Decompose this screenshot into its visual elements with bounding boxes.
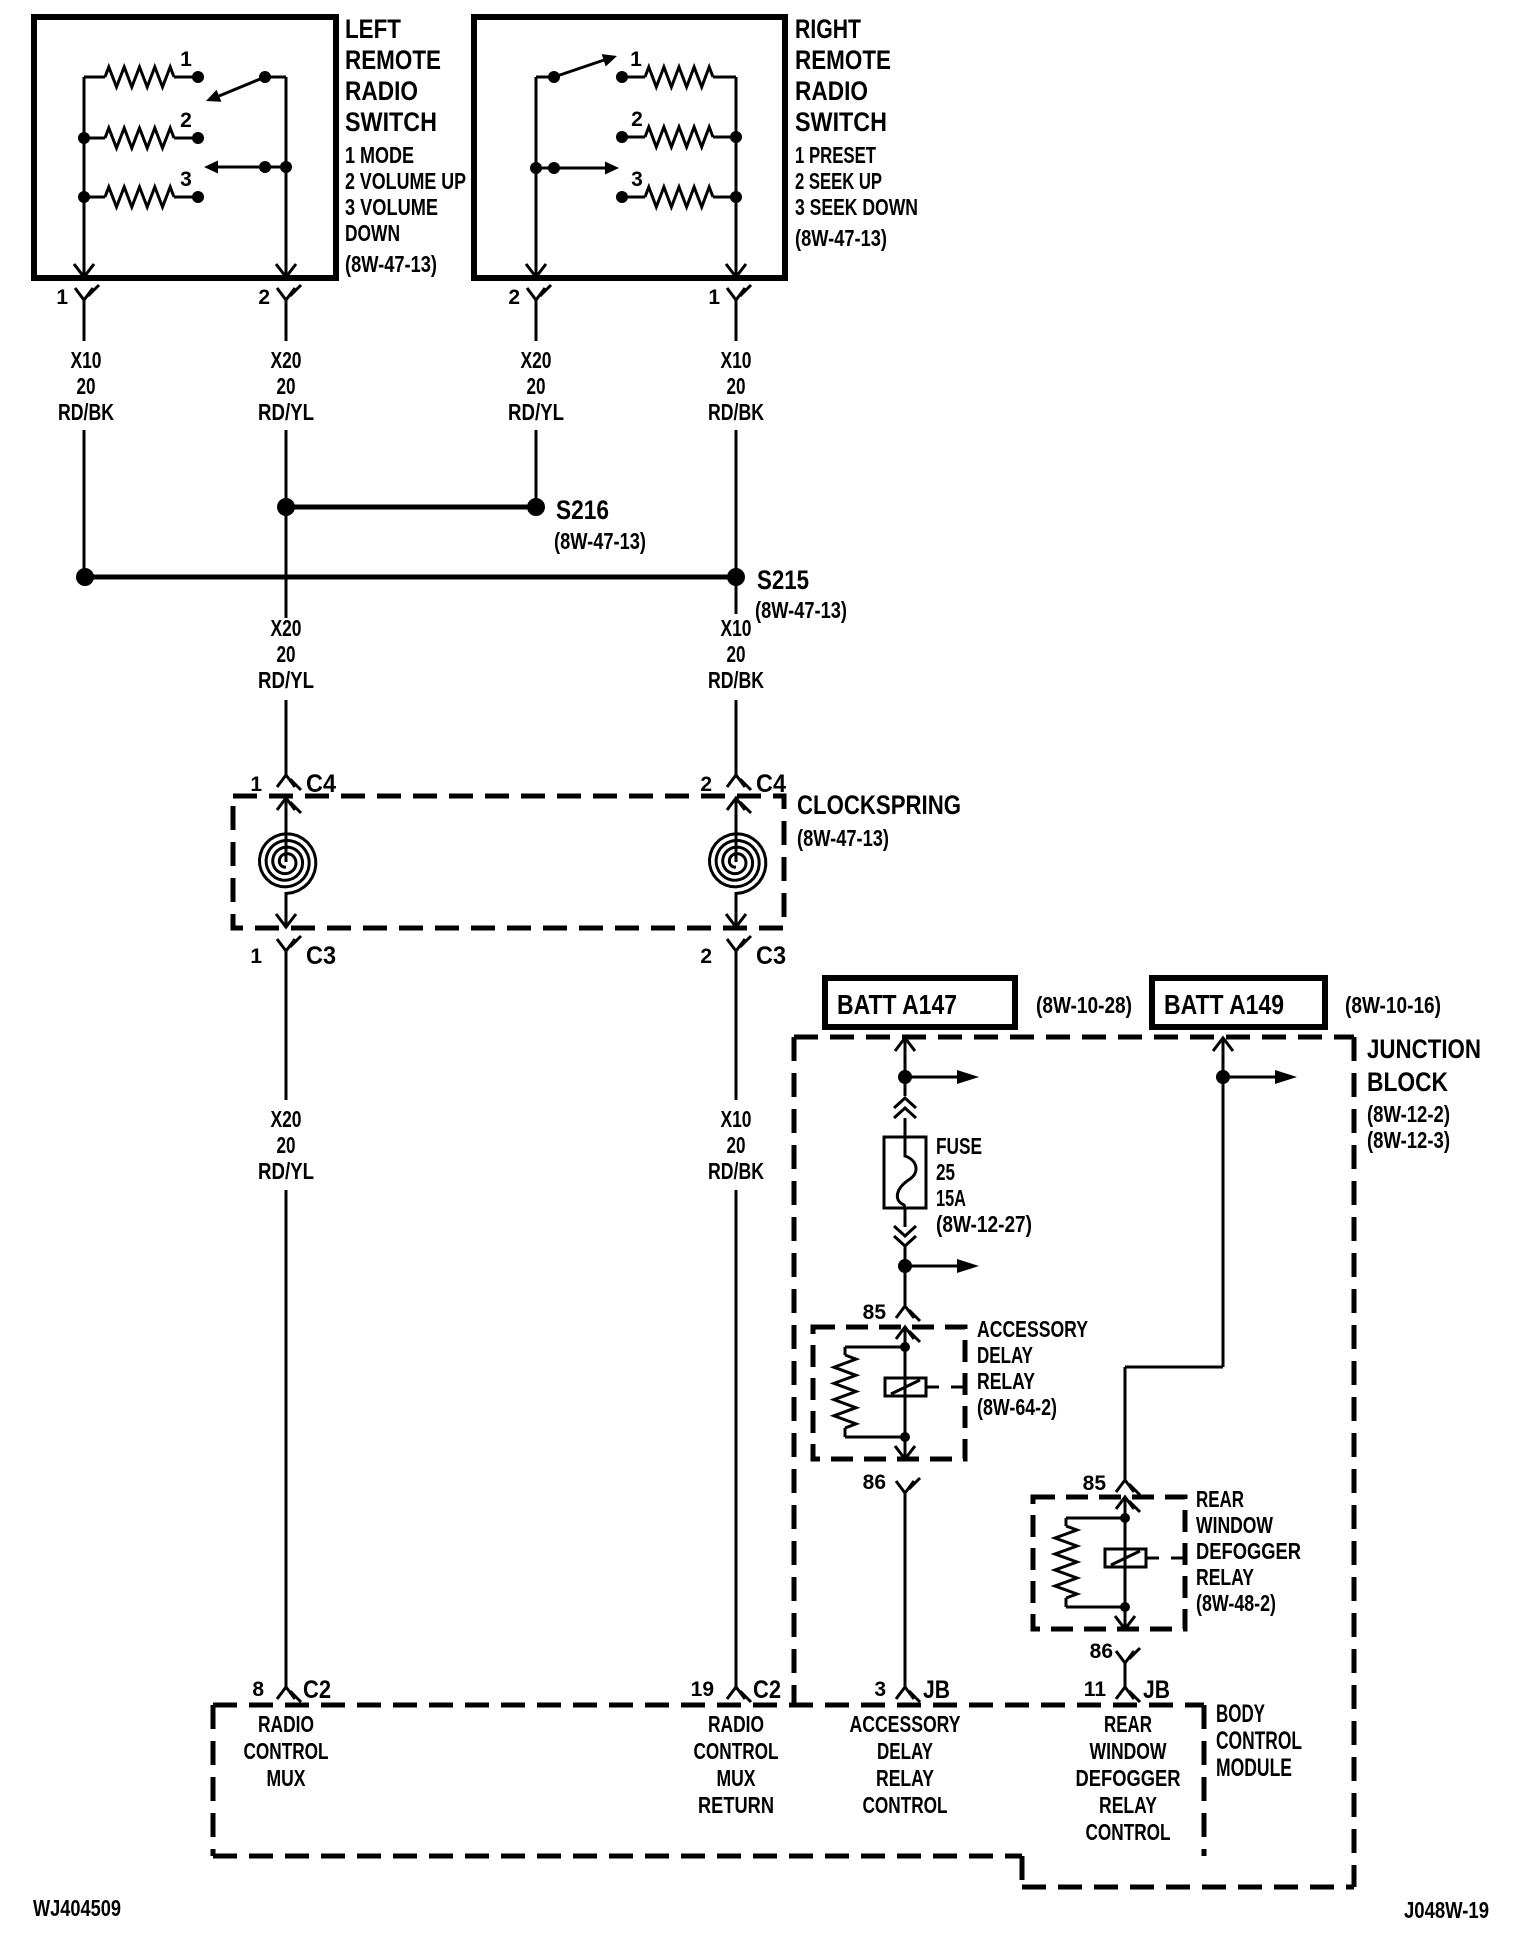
wire from BATT A149 xyxy=(1213,1038,1233,1367)
svg-text:2: 2 xyxy=(180,109,192,132)
accessory delay relay internals xyxy=(834,1327,920,1459)
svg-text:REMOTE: REMOTE xyxy=(795,45,891,75)
svg-text:X10: X10 xyxy=(71,347,102,373)
clockspring box xyxy=(233,796,784,928)
node REAR WINDOW DEFOGGER RELAY CONTROL xyxy=(1076,1711,1181,1845)
svg-text:RD/YL: RD/YL xyxy=(258,667,314,693)
svg-text:CLOCKSPRING: CLOCKSPRING xyxy=(797,790,961,820)
connector JB pin 11 xyxy=(1084,1676,1170,1704)
svg-text:JUNCTION: JUNCTION xyxy=(1367,1034,1481,1064)
svg-text:SWITCH: SWITCH xyxy=(345,107,437,137)
left switch wiper arm xyxy=(206,71,286,102)
wire from BATT A147 xyxy=(895,1038,915,1096)
svg-text:3: 3 xyxy=(180,168,192,191)
svg-text:1: 1 xyxy=(630,48,642,71)
svg-text:2 VOLUME UP: 2 VOLUME UP xyxy=(345,168,466,194)
svg-text:X20: X20 xyxy=(271,615,302,641)
svg-text:(8W-12-2): (8W-12-2) xyxy=(1367,1101,1450,1127)
svg-text:C3: C3 xyxy=(756,942,786,970)
right switch wiper arm xyxy=(548,54,617,83)
accessory delay relay box xyxy=(813,1327,965,1459)
right switch wire right vertical xyxy=(726,77,746,277)
svg-text:RELAY: RELAY xyxy=(1099,1792,1157,1818)
svg-text:CONTROL: CONTROL xyxy=(694,1738,779,1764)
inline connector double chevron xyxy=(894,1098,916,1137)
right remote radio switch box xyxy=(474,17,785,278)
drawing number WJ404509 xyxy=(33,1895,121,1921)
rear window defogger relay coil xyxy=(1105,1549,1186,1567)
wire segment xyxy=(535,430,538,507)
drawing number J048W-19 xyxy=(1404,1897,1489,1923)
splice S215 xyxy=(76,565,847,623)
wire X10 20 RD/BK label right xyxy=(708,347,764,425)
svg-text:(8W-10-28): (8W-10-28) xyxy=(1036,992,1132,1018)
wire segment xyxy=(285,700,288,775)
connector C2 pin 8 xyxy=(252,1676,331,1704)
svg-text:2: 2 xyxy=(258,286,270,309)
svg-text:REAR: REAR xyxy=(1196,1486,1244,1512)
svg-text:C2: C2 xyxy=(753,1676,781,1704)
svg-text:(8W-48-2): (8W-48-2) xyxy=(1196,1590,1276,1616)
svg-text:RD/YL: RD/YL xyxy=(258,1158,314,1184)
accessory delay relay label xyxy=(977,1316,1088,1420)
left switch wire right vertical xyxy=(276,77,296,277)
svg-text:C3: C3 xyxy=(306,942,336,970)
resistor right switch 2 SEEK UP xyxy=(616,108,742,147)
svg-text:WINDOW: WINDOW xyxy=(1090,1738,1167,1764)
svg-text:15A: 15A xyxy=(936,1185,966,1211)
svg-text:(8W-47-13): (8W-47-13) xyxy=(797,825,889,851)
svg-text:MUX: MUX xyxy=(717,1765,756,1791)
junction block box xyxy=(794,1037,1354,1887)
svg-text:DEFOGGER: DEFOGGER xyxy=(1196,1538,1301,1564)
svg-text:MUX: MUX xyxy=(267,1765,306,1791)
wire segment xyxy=(735,1190,738,1687)
fuse 25 15A xyxy=(884,1133,1032,1237)
relay pin 85 connector xyxy=(1083,1472,1140,1495)
svg-text:1: 1 xyxy=(180,48,192,71)
node branch arrow xyxy=(1216,1070,1297,1084)
clockspring coil right xyxy=(710,798,766,927)
svg-text:86: 86 xyxy=(1090,1640,1113,1663)
node ACCESSORY DELAY RELAY CONTROL xyxy=(850,1711,961,1818)
svg-text:(8W-47-13): (8W-47-13) xyxy=(795,225,887,251)
svg-text:1: 1 xyxy=(56,286,68,309)
svg-text:3 VOLUME: 3 VOLUME xyxy=(345,194,438,220)
relay pin 86 connector xyxy=(863,1471,920,1494)
svg-text:20: 20 xyxy=(527,373,546,399)
left switch wire left vertical xyxy=(74,77,94,277)
wire segment xyxy=(735,586,738,614)
connector C2 pin 19 xyxy=(691,1676,781,1704)
svg-text:RELAY: RELAY xyxy=(876,1765,934,1791)
svg-text:RD/YL: RD/YL xyxy=(258,399,314,425)
svg-text:RETURN: RETURN xyxy=(698,1792,774,1818)
svg-text:C2: C2 xyxy=(303,1676,331,1704)
wire segment xyxy=(285,951,288,1100)
svg-text:RD/BK: RD/BK xyxy=(58,399,114,425)
resistor left switch 3 VOLUME DOWN xyxy=(78,168,204,207)
svg-text:20: 20 xyxy=(277,1132,296,1158)
svg-text:BODY: BODY xyxy=(1216,1700,1265,1728)
wire segment xyxy=(1124,1663,1127,1687)
splice S216 xyxy=(277,495,646,554)
svg-text:BATT A149: BATT A149 xyxy=(1164,989,1284,1020)
svg-text:2: 2 xyxy=(700,945,712,968)
svg-text:DELAY: DELAY xyxy=(877,1738,933,1764)
wire X20 20 RD/YL label mid xyxy=(258,615,314,693)
battery feed box BATT A147 xyxy=(825,978,1132,1027)
svg-text:1 MODE: 1 MODE xyxy=(345,142,414,168)
clockspring coil left xyxy=(260,798,316,927)
svg-text:(8W-47-13): (8W-47-13) xyxy=(345,251,437,277)
wire X20 20 RD/YL label right xyxy=(508,347,564,425)
right switch pin 2 connector xyxy=(508,285,551,341)
svg-text:X10: X10 xyxy=(721,347,752,373)
svg-text:RD/BK: RD/BK xyxy=(708,1158,764,1184)
svg-text:3: 3 xyxy=(631,168,643,191)
right switch select arrow xyxy=(530,162,619,175)
svg-text:REAR: REAR xyxy=(1104,1711,1152,1737)
resistor left switch 1 MODE xyxy=(84,48,204,87)
wire X20 20 RD/YL label lower xyxy=(258,1106,314,1184)
svg-text:(8W-12-27): (8W-12-27) xyxy=(936,1211,1032,1237)
svg-text:J048W-19: J048W-19 xyxy=(1404,1897,1489,1923)
wire X20 20 RD/YL label left xyxy=(258,347,314,425)
wire segment xyxy=(285,1190,288,1687)
wire segment xyxy=(904,1493,907,1687)
svg-text:CONTROL: CONTROL xyxy=(244,1738,329,1764)
connector C3 pin 1 xyxy=(250,936,336,970)
svg-text:RADIO: RADIO xyxy=(795,76,868,106)
relay pin 85 connector xyxy=(863,1301,920,1324)
svg-text:RELAY: RELAY xyxy=(1196,1564,1254,1590)
accessory delay relay bottom arrow xyxy=(895,1446,915,1459)
svg-text:1: 1 xyxy=(250,773,262,796)
svg-text:MODULE: MODULE xyxy=(1216,1754,1292,1782)
resistor right switch 1 PRESET xyxy=(616,48,736,87)
svg-text:X10: X10 xyxy=(721,1106,752,1132)
wire segment xyxy=(83,430,86,577)
left switch pin 1 connector xyxy=(56,285,99,341)
svg-text:RD/BK: RD/BK xyxy=(708,667,764,693)
svg-text:RIGHT: RIGHT xyxy=(795,14,861,44)
left switch select arrow xyxy=(204,161,292,174)
svg-text:SWITCH: SWITCH xyxy=(795,107,887,137)
svg-text:DOWN: DOWN xyxy=(345,220,400,246)
svg-text:(8W-10-16): (8W-10-16) xyxy=(1345,992,1441,1018)
svg-text:20: 20 xyxy=(727,373,746,399)
right switch wire left vertical xyxy=(526,77,554,277)
svg-text:85: 85 xyxy=(863,1301,887,1324)
body control module box xyxy=(213,1705,1354,1887)
svg-text:JB: JB xyxy=(923,1676,950,1704)
svg-text:WJ404509: WJ404509 xyxy=(33,1895,121,1921)
svg-text:RADIO: RADIO xyxy=(708,1711,764,1737)
svg-text:3: 3 xyxy=(874,1678,886,1701)
node branch arrow xyxy=(898,1070,979,1084)
svg-text:DEFOGGER: DEFOGGER xyxy=(1076,1765,1181,1791)
resistor right switch 3 SEEK DOWN xyxy=(616,168,742,207)
svg-text:20: 20 xyxy=(77,373,96,399)
svg-text:19: 19 xyxy=(691,1678,714,1701)
wire segment xyxy=(735,951,738,1100)
right switch pin 1 connector xyxy=(708,285,751,341)
node branch arrow xyxy=(898,1259,979,1273)
svg-text:3 SEEK DOWN: 3 SEEK DOWN xyxy=(795,194,918,220)
svg-text:ACCESSORY: ACCESSORY xyxy=(850,1711,961,1737)
svg-text:1: 1 xyxy=(708,286,720,309)
svg-text:2 SEEK UP: 2 SEEK UP xyxy=(795,168,882,194)
svg-text:1: 1 xyxy=(250,945,262,968)
svg-text:CONTROL: CONTROL xyxy=(1216,1727,1302,1755)
svg-text:S215: S215 xyxy=(757,565,809,595)
svg-text:20: 20 xyxy=(727,1132,746,1158)
body control module label xyxy=(1216,1700,1302,1782)
svg-text:REMOTE: REMOTE xyxy=(345,45,441,75)
junction block label xyxy=(1367,1034,1481,1153)
svg-text:RD/YL: RD/YL xyxy=(508,399,564,425)
svg-text:8: 8 xyxy=(252,1678,264,1701)
svg-text:X10: X10 xyxy=(721,615,752,641)
svg-text:X20: X20 xyxy=(271,1106,302,1132)
rear window defogger relay label xyxy=(1196,1486,1301,1616)
svg-text:25: 25 xyxy=(936,1159,955,1185)
left switch title text xyxy=(345,14,466,277)
svg-text:JB: JB xyxy=(1143,1676,1170,1704)
rear window defogger relay internals xyxy=(1055,1497,1140,1629)
svg-text:86: 86 xyxy=(863,1471,886,1494)
svg-text:BLOCK: BLOCK xyxy=(1367,1067,1448,1097)
accessory delay relay coil xyxy=(885,1378,966,1396)
svg-text:RADIO: RADIO xyxy=(258,1711,314,1737)
svg-text:(8W-47-13): (8W-47-13) xyxy=(554,528,646,554)
svg-text:S216: S216 xyxy=(556,495,609,525)
wire segment xyxy=(894,1208,916,1306)
svg-text:RELAY: RELAY xyxy=(977,1368,1035,1394)
svg-text:(8W-47-13): (8W-47-13) xyxy=(755,597,847,623)
rear window defogger relay bottom arrow xyxy=(1115,1616,1135,1629)
svg-text:(8W-64-2): (8W-64-2) xyxy=(977,1394,1057,1420)
svg-text:X20: X20 xyxy=(521,347,552,373)
svg-text:2: 2 xyxy=(508,286,520,309)
right switch title text xyxy=(795,14,918,251)
connector JB pin 3 xyxy=(874,1676,950,1704)
wire X10 20 RD/BK label lower xyxy=(708,1106,764,1184)
svg-text:CONTROL: CONTROL xyxy=(863,1792,948,1818)
relay pin 86 connector xyxy=(1090,1640,1140,1663)
wire X10 20 RD/BK label left xyxy=(58,347,114,425)
wire segment xyxy=(735,700,738,775)
resistor left switch 2 VOLUME UP xyxy=(78,109,204,148)
svg-text:1 PRESET: 1 PRESET xyxy=(795,142,876,168)
wire jog to defogger relay xyxy=(1125,1367,1223,1480)
svg-text:85: 85 xyxy=(1083,1472,1107,1495)
svg-text:20: 20 xyxy=(277,373,296,399)
connector C3 pin 2 xyxy=(700,936,786,970)
svg-text:WINDOW: WINDOW xyxy=(1196,1512,1273,1538)
rear window defogger relay box xyxy=(1033,1497,1185,1629)
svg-text:20: 20 xyxy=(277,641,296,667)
left remote radio switch box xyxy=(34,17,336,278)
connector C4 pin 2 xyxy=(700,770,786,798)
svg-text:LEFT: LEFT xyxy=(345,14,401,44)
svg-text:RD/BK: RD/BK xyxy=(708,399,764,425)
battery feed box BATT A149 xyxy=(1152,978,1441,1027)
svg-text:11: 11 xyxy=(1084,1678,1107,1701)
left switch pin 2 connector xyxy=(258,285,301,341)
svg-text:2: 2 xyxy=(631,108,643,131)
svg-text:BATT A147: BATT A147 xyxy=(837,989,957,1020)
svg-text:(8W-12-3): (8W-12-3) xyxy=(1367,1127,1450,1153)
wire X10 20 RD/BK label mid xyxy=(708,615,764,693)
svg-text:ACCESSORY: ACCESSORY xyxy=(977,1316,1088,1342)
svg-text:RADIO: RADIO xyxy=(345,76,418,106)
svg-text:2: 2 xyxy=(700,773,712,796)
svg-text:X20: X20 xyxy=(271,347,302,373)
connector C4 pin 1 xyxy=(250,770,336,798)
svg-text:DELAY: DELAY xyxy=(977,1342,1033,1368)
wire segment xyxy=(735,430,738,577)
node RADIO CONTROL MUX xyxy=(244,1711,329,1791)
svg-text:CONTROL: CONTROL xyxy=(1086,1819,1171,1845)
node RADIO CONTROL MUX RETURN xyxy=(694,1711,779,1818)
svg-text:FUSE: FUSE xyxy=(936,1133,982,1159)
svg-text:20: 20 xyxy=(727,641,746,667)
wire segment xyxy=(285,430,288,618)
clockspring label xyxy=(797,790,961,851)
